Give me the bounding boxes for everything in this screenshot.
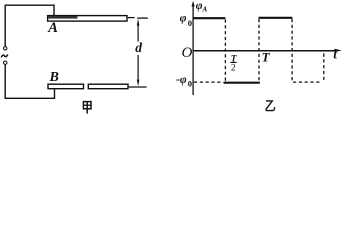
dimension arrowhead up: [137, 19, 140, 26]
dashed vertical at T: [258, 19, 260, 81]
dashed vertical at T/2: [224, 20, 226, 83]
plate A left interior smudge: [48, 16, 77, 19]
svg-text:O: O: [182, 45, 193, 61]
svg-text:d: d: [135, 40, 142, 55]
AC source tilde: [1, 55, 8, 58]
wire top-left from source to plate A: [5, 5, 54, 46]
dimension line d upper shaft: [137, 24, 139, 42]
dimension line d lower shaft: [137, 55, 139, 81]
svg-text:t: t: [333, 46, 337, 61]
x-axis arrowhead: [334, 49, 341, 52]
label T/2 fraction: [230, 54, 237, 73]
dimension top tick: [137, 17, 148, 19]
dashed horizontal -phi0 from 3T/2 to 2T: [293, 81, 322, 83]
wire bottom-left from source to plate B: [5, 65, 54, 99]
capacitor plate B left segment: [48, 84, 84, 89]
dashed vertical at 2T: [323, 54, 325, 83]
y-axis arrowhead: [192, 1, 195, 7]
dimension arrowhead down: [137, 80, 140, 87]
capacitor plate A: [48, 16, 127, 22]
svg-text:2: 2: [231, 63, 236, 73]
terminal circle bottom: [3, 61, 6, 64]
terminal circle top: [3, 47, 6, 50]
label jia (甲) drawn as strokes: [83, 102, 91, 114]
svg-text:B: B: [49, 70, 59, 85]
y-axis (phi axis): [193, 5, 337, 95]
waveform solid +phi0 segment 0 to T/2: [193, 17, 225, 19]
dimension bottom tick: [128, 86, 147, 88]
capacitor plate B right segment: [88, 84, 128, 89]
waveform solid +phi0 segment T to 3T/2: [259, 17, 293, 19]
dashed vertical at 3T/2: [291, 19, 293, 82]
plate A edge extension line: [128, 17, 135, 19]
svg-text:A: A: [47, 20, 58, 36]
waveform solid -phi0 segment T/2 to T: [224, 82, 260, 84]
svg-text:T: T: [262, 49, 271, 64]
dashed horizontal -phi0 from axis to T/2: [194, 81, 222, 83]
label yi (乙) drawn as strokes: [266, 101, 275, 111]
